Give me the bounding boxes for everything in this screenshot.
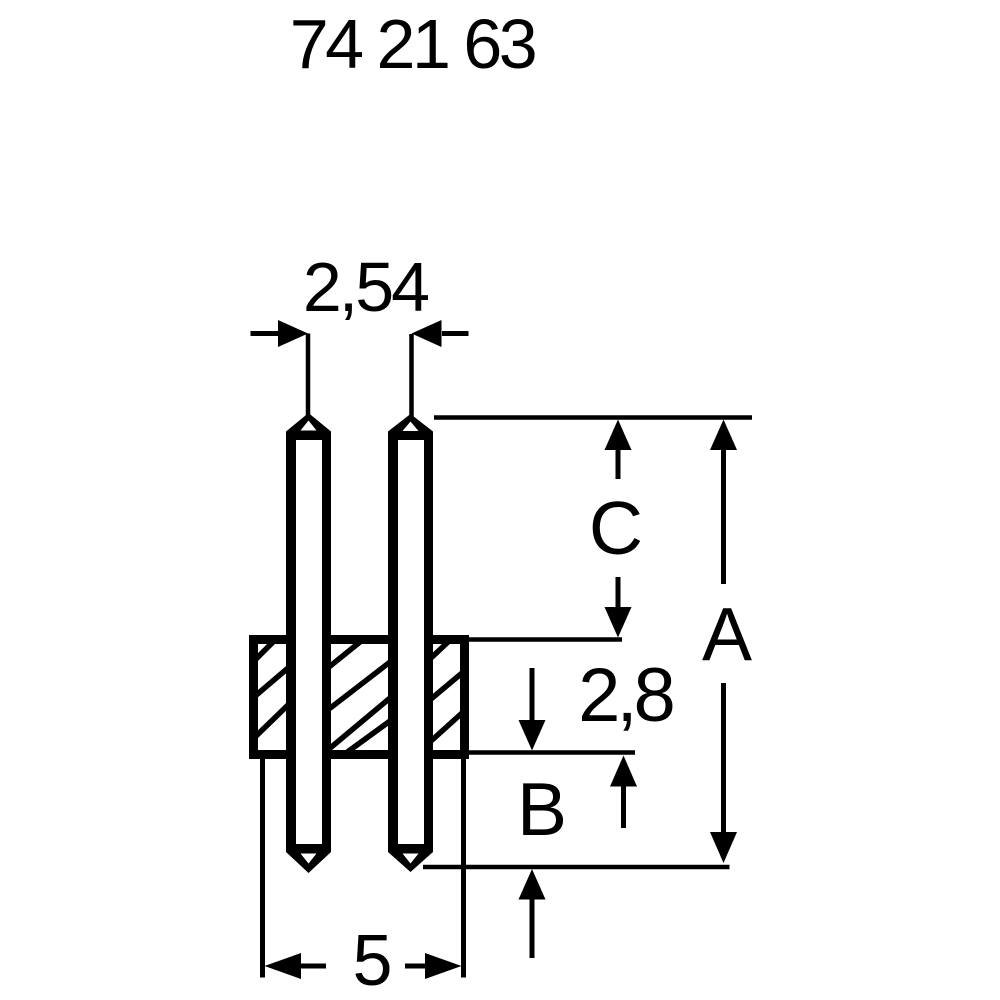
connector body (hatched insulator): [254, 640, 465, 755]
dimension A lower arrow: [710, 683, 737, 863]
hatch right 3: [431, 713, 462, 741]
dimension 5 right arrow: [405, 953, 462, 979]
svg-text:B: B: [517, 767, 567, 851]
dimension 5 left extension line: [260, 757, 265, 978]
dimension 5 left arrow: [265, 953, 327, 979]
pin 2 (right contact pin): [388, 414, 433, 872]
hatch mid 3: [329, 698, 390, 749]
svg-text:5: 5: [352, 921, 392, 1000]
part number title 74 21 63: [290, 5, 535, 83]
hatch mid 4: [346, 721, 390, 753]
hatch left 1: [254, 642, 273, 661]
extension line body top level: [461, 637, 622, 642]
dimension B upper arrow: [610, 756, 637, 829]
hatch right 2: [431, 673, 462, 699]
dimension 2,54 label: [303, 248, 428, 326]
hatch lines of body section: [254, 642, 462, 753]
dimension 2,54 right leader and arrow: [412, 320, 469, 417]
hatch mid 1: [329, 642, 360, 667]
dimension B label: [517, 767, 567, 851]
svg-text:2,54: 2,54: [303, 248, 428, 326]
pin 1 (left contact pin): [286, 413, 331, 873]
dimension 2,8 label: [578, 653, 672, 738]
svg-text:2,8: 2,8: [578, 653, 672, 738]
svg-text:C: C: [589, 486, 643, 570]
hatch left 3: [254, 705, 288, 738]
dimension 2,8 arrow: [519, 668, 546, 751]
dimension C lower arrow: [605, 577, 632, 638]
hatch mid 2: [329, 662, 390, 709]
extension line pin bottom level: [423, 865, 730, 870]
hatch left 2: [254, 668, 288, 697]
dimension B lower arrow: [519, 869, 546, 958]
dimension 2,54 left leader and arrow: [251, 320, 309, 416]
hatch right 1: [431, 642, 448, 658]
dimension 5 label: [352, 921, 392, 1000]
dimension A label: [702, 592, 752, 676]
svg-text:74 21 63: 74 21 63: [290, 5, 535, 83]
dimension 5 right extension line: [461, 759, 466, 978]
extension line body bottom level: [461, 750, 635, 755]
dimension C label: [589, 486, 643, 570]
svg-text:A: A: [702, 592, 752, 676]
extension line pin top level: [434, 415, 752, 420]
dimension C upper arrow: [605, 420, 632, 480]
dimension A upper arrow: [710, 420, 737, 585]
